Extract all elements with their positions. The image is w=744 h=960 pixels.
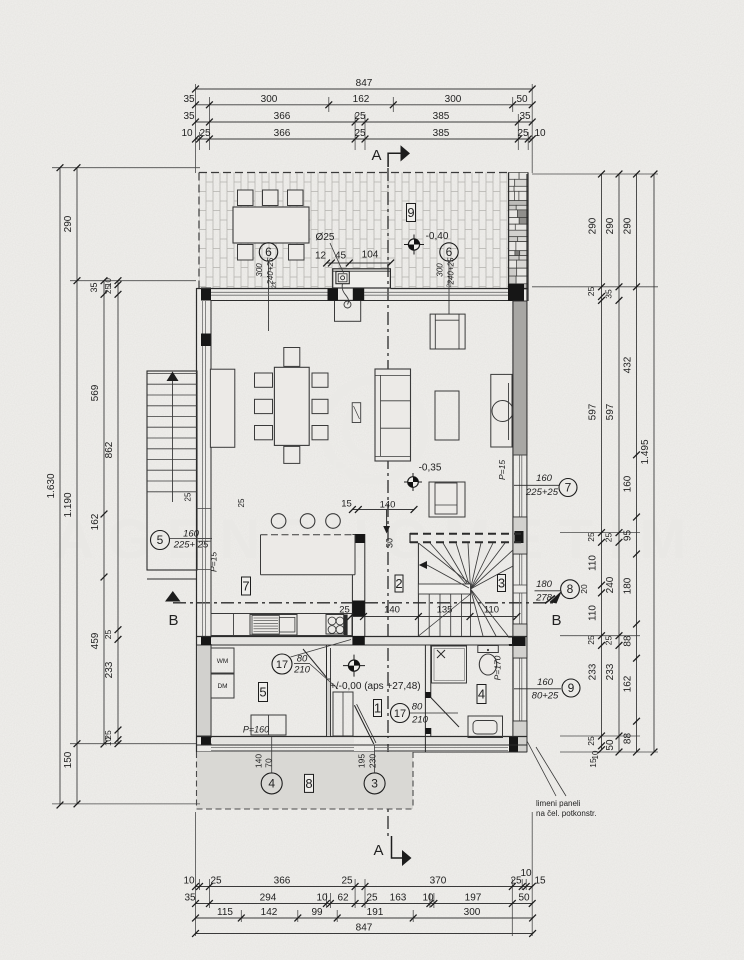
svg-text:35: 35 <box>604 289 614 299</box>
svg-text:8: 8 <box>305 776 312 791</box>
svg-text:15: 15 <box>588 758 598 768</box>
svg-text:25: 25 <box>103 630 113 640</box>
svg-text:15: 15 <box>534 876 546 887</box>
svg-text:50: 50 <box>605 739 616 751</box>
svg-text:1: 1 <box>374 701 381 716</box>
svg-text:6: 6 <box>265 245 272 259</box>
svg-text:385: 385 <box>433 111 450 122</box>
svg-text:6: 6 <box>446 245 453 259</box>
svg-text:432: 432 <box>622 356 633 373</box>
svg-text:WM: WM <box>217 658 229 665</box>
svg-text:30: 30 <box>385 538 395 548</box>
svg-text:-0,35: -0,35 <box>419 463 442 474</box>
svg-text:160: 160 <box>537 677 554 688</box>
svg-text:25: 25 <box>604 533 614 543</box>
svg-text:88: 88 <box>622 733 633 745</box>
svg-text:25: 25 <box>237 498 246 507</box>
svg-text:7: 7 <box>242 579 249 594</box>
svg-text:25: 25 <box>354 128 366 139</box>
svg-text:10: 10 <box>181 128 193 139</box>
svg-text:300: 300 <box>255 263 264 277</box>
svg-text:366: 366 <box>274 128 291 139</box>
svg-text:115: 115 <box>217 907 233 918</box>
svg-text:150: 150 <box>63 751 74 768</box>
svg-text:limeni paneli: limeni paneli <box>536 799 581 808</box>
svg-text:191: 191 <box>367 907 384 918</box>
svg-text:230: 230 <box>368 754 378 768</box>
svg-text:17: 17 <box>276 659 288 671</box>
svg-text:180: 180 <box>622 577 633 594</box>
svg-text:2: 2 <box>395 576 402 591</box>
svg-text:160: 160 <box>536 473 553 484</box>
svg-text:2x: 2x <box>271 281 278 289</box>
svg-text:88: 88 <box>622 635 633 647</box>
svg-text:35: 35 <box>89 282 99 292</box>
svg-text:35: 35 <box>183 94 195 105</box>
svg-text:95: 95 <box>622 530 633 542</box>
svg-text:847: 847 <box>356 78 373 89</box>
svg-text:142: 142 <box>261 907 278 918</box>
svg-text:17: 17 <box>394 708 406 720</box>
svg-text:80: 80 <box>412 702 423 713</box>
svg-text:25: 25 <box>586 635 596 645</box>
svg-text:35: 35 <box>184 893 196 904</box>
svg-text:290: 290 <box>605 217 616 234</box>
svg-text:45: 45 <box>335 251 347 262</box>
svg-text:210: 210 <box>411 715 429 726</box>
svg-text:162: 162 <box>622 675 633 692</box>
svg-text:99: 99 <box>311 907 323 918</box>
svg-text:35: 35 <box>183 111 195 122</box>
svg-text:70: 70 <box>264 758 274 768</box>
svg-text:62: 62 <box>337 893 349 904</box>
svg-text:25: 25 <box>339 605 350 616</box>
svg-text:25: 25 <box>366 893 378 904</box>
svg-text:Ø25: Ø25 <box>316 232 335 243</box>
svg-text:25: 25 <box>586 736 596 746</box>
svg-text:162: 162 <box>90 513 101 530</box>
svg-text:4: 4 <box>478 687 485 702</box>
svg-text:DM: DM <box>217 683 227 690</box>
svg-text:1.630: 1.630 <box>46 473 57 498</box>
svg-text:25: 25 <box>210 876 222 887</box>
svg-text:140: 140 <box>380 500 396 511</box>
svg-text:12: 12 <box>315 251 327 262</box>
svg-text:P=160: P=160 <box>243 725 269 735</box>
svg-text:300: 300 <box>436 263 445 277</box>
svg-text:80+25: 80+25 <box>532 691 559 702</box>
svg-text:10: 10 <box>520 868 532 879</box>
svg-text:3: 3 <box>371 776 378 790</box>
svg-text:10: 10 <box>591 750 600 759</box>
svg-text:862: 862 <box>104 441 115 458</box>
svg-text:A: A <box>373 842 383 859</box>
svg-text:10: 10 <box>534 128 546 139</box>
svg-text:290: 290 <box>587 217 598 234</box>
svg-text:233: 233 <box>587 663 598 680</box>
svg-text:15: 15 <box>341 499 352 510</box>
svg-text:25: 25 <box>586 532 596 542</box>
svg-text:na čel. potkonstr.: na čel. potkonstr. <box>536 809 596 818</box>
svg-text:80: 80 <box>297 654 308 665</box>
svg-text:4: 4 <box>268 776 275 790</box>
svg-text:459: 459 <box>90 632 101 649</box>
svg-text:233: 233 <box>104 661 115 678</box>
svg-text:-0,40: -0,40 <box>426 231 449 242</box>
svg-text:366: 366 <box>274 876 291 887</box>
svg-text:25: 25 <box>341 876 353 887</box>
svg-text:5: 5 <box>157 533 164 547</box>
svg-text:110: 110 <box>484 605 499 616</box>
svg-text:140: 140 <box>384 605 400 616</box>
svg-text:240: 240 <box>605 576 616 593</box>
svg-text:569: 569 <box>90 384 101 401</box>
svg-text:195: 195 <box>357 754 367 768</box>
svg-text:597: 597 <box>587 403 598 420</box>
svg-text:5: 5 <box>259 685 266 700</box>
svg-text:10: 10 <box>316 893 328 904</box>
svg-text:160: 160 <box>183 529 200 540</box>
svg-text:370: 370 <box>430 876 447 887</box>
svg-text:225+25: 225+25 <box>525 487 559 498</box>
svg-text:366: 366 <box>274 111 291 122</box>
svg-text:1.190: 1.190 <box>63 492 74 517</box>
svg-text:35: 35 <box>519 111 531 122</box>
svg-text:135: 135 <box>437 605 453 616</box>
svg-text:240+25: 240+25 <box>266 257 275 285</box>
svg-text:25: 25 <box>184 492 193 501</box>
svg-text:104: 104 <box>362 250 379 261</box>
svg-text:P=15: P=15 <box>497 460 507 480</box>
svg-text:B: B <box>168 612 178 629</box>
svg-text:25: 25 <box>517 128 529 139</box>
svg-text:140: 140 <box>254 754 264 768</box>
svg-text:50: 50 <box>516 94 528 105</box>
svg-text:7: 7 <box>565 481 572 495</box>
svg-text:300: 300 <box>445 94 462 105</box>
svg-text:2x: 2x <box>446 280 453 288</box>
svg-text:25: 25 <box>354 111 366 122</box>
svg-text:197: 197 <box>465 893 482 904</box>
svg-text:300: 300 <box>464 907 481 918</box>
svg-text:9: 9 <box>407 205 414 220</box>
svg-text:25: 25 <box>604 636 614 646</box>
svg-text:50: 50 <box>518 893 530 904</box>
svg-text:110: 110 <box>587 555 598 571</box>
svg-text:25: 25 <box>104 285 113 294</box>
svg-text:294: 294 <box>260 893 277 904</box>
svg-text:290: 290 <box>63 215 74 232</box>
svg-text:163: 163 <box>390 893 407 904</box>
svg-text:233: 233 <box>605 663 616 680</box>
svg-text:210: 210 <box>293 665 311 676</box>
svg-text:597: 597 <box>605 403 616 420</box>
svg-text:160: 160 <box>622 475 633 492</box>
svg-text:B: B <box>551 612 561 629</box>
svg-text:385: 385 <box>433 128 450 139</box>
svg-text:20: 20 <box>579 584 589 594</box>
svg-text:A: A <box>371 147 381 164</box>
svg-text:3: 3 <box>498 576 505 591</box>
svg-text:162: 162 <box>353 94 370 105</box>
svg-text:8: 8 <box>567 582 574 596</box>
svg-text:300: 300 <box>261 94 278 105</box>
svg-text:847: 847 <box>356 923 373 934</box>
svg-text:9: 9 <box>568 681 575 695</box>
svg-text:110: 110 <box>587 605 598 621</box>
svg-text:25: 25 <box>199 128 211 139</box>
svg-text:10: 10 <box>104 737 113 746</box>
svg-text:P=170: P=170 <box>493 655 503 680</box>
svg-text:10: 10 <box>183 876 195 887</box>
svg-text:10: 10 <box>422 893 434 904</box>
svg-text:290: 290 <box>622 217 633 234</box>
svg-text:180: 180 <box>536 579 553 590</box>
svg-text:+/-0,00 (aps +27,48): +/-0,00 (aps +27,48) <box>330 681 421 692</box>
svg-text:1.495: 1.495 <box>640 439 651 464</box>
svg-text:25: 25 <box>586 287 596 297</box>
svg-text:P=15: P=15 <box>209 552 219 572</box>
